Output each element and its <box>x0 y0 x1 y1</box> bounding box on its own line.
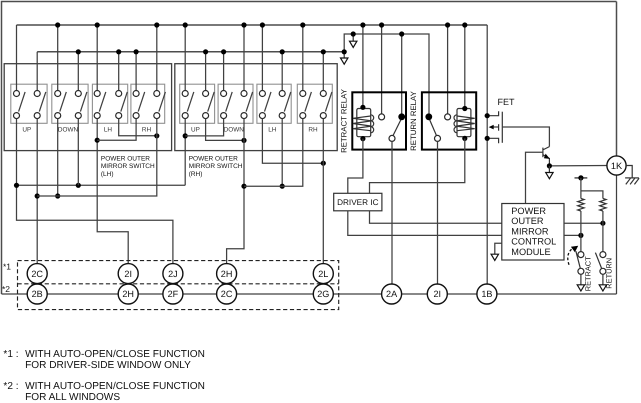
off-page arrow at module left <box>495 243 502 254</box>
junction on bus y25 <box>55 22 60 27</box>
wire: stem from bus y52 to switch <box>223 52 225 91</box>
svg-text:2A: 2A <box>386 289 398 299</box>
switch arm (UP LH-assy) <box>39 92 46 112</box>
return relay coil (inductor + resistor) <box>457 109 471 137</box>
wire: return relay coil feed from bus y25 <box>464 25 466 109</box>
junction on bus y52 <box>280 49 285 54</box>
wire: RH-assy LH-L down and right to RH-R line <box>262 119 323 164</box>
return relay box <box>422 92 476 149</box>
svg-text:*2 :: *2 : <box>3 381 18 392</box>
wire: retract relay coil to driver IC <box>348 139 363 194</box>
wire: RH-assy RH-R down to connector 2L <box>322 119 324 264</box>
wire: module top to transistor base <box>526 152 543 203</box>
resistor R (retract sense) <box>578 199 584 212</box>
off-page arrow on y34 line <box>352 34 354 41</box>
wire: stem from bus y25 to switch <box>184 25 186 91</box>
retract relay box <box>352 92 406 149</box>
svg-text:(RH): (RH) <box>189 171 203 178</box>
switch contact circles (LH RH-assy) <box>259 91 265 97</box>
junction on bus y52 <box>76 49 81 54</box>
svg-text:MIRROR: MIRROR <box>511 226 549 236</box>
svg-text:LH: LH <box>104 127 113 134</box>
wire: stem from bus y52 to switch <box>77 52 79 91</box>
wire: 1K to ground <box>626 166 632 178</box>
wire H1: common of UP-L/DOWN-R/RH-assy-UP-L <box>17 184 186 186</box>
switch arm (DOWN RH-assy) <box>246 92 253 112</box>
connector 1B (bottom row) <box>477 284 497 304</box>
power outer mirror switch (LH) box <box>4 64 171 151</box>
off-page arrow below emitter <box>548 166 550 172</box>
connector 2C (bottom row) <box>217 284 237 304</box>
off-page arrow below return switch <box>602 274 604 285</box>
ground (chassis) <box>625 177 639 179</box>
wire: driver IC output 2 to module <box>348 211 502 236</box>
wire: return relay open contact feed from bus y25 <box>447 25 449 114</box>
switch contact circles (RH RH-assy) <box>320 91 326 97</box>
retract relay open contact <box>379 114 385 120</box>
svg-text:POWER OUTER: POWER OUTER <box>189 156 238 163</box>
connector 2I (top row) <box>118 264 138 284</box>
svg-text:DOWN: DOWN <box>58 127 79 134</box>
wire: stem from bus y25 to switch <box>156 25 158 91</box>
svg-text:UP: UP <box>22 127 31 134</box>
power outer mirror control module box <box>502 204 564 261</box>
wire: 1K down to bottom wire <box>616 175 618 294</box>
resistor R (return sense) <box>600 199 606 212</box>
svg-text:2H: 2H <box>221 269 233 279</box>
switch arm (UP RH-assy) <box>187 92 194 112</box>
wire: driver IC output 1 to module <box>370 211 502 223</box>
svg-text:RH: RH <box>308 127 318 134</box>
wire: RH-assy DOWN-L down and left to UP-L <box>185 119 223 136</box>
wire: stem from bus y52 to switch <box>281 52 283 91</box>
off-page arrow at end of bus y52 <box>343 52 345 58</box>
svg-text:2B: 2B <box>32 289 43 299</box>
connector 2H (top row) <box>217 264 237 284</box>
svg-text:CONTROL: CONTROL <box>511 237 556 247</box>
switch contact circles (LH LH-assy) <box>94 91 100 97</box>
svg-text:WITH AUTO-OPEN/CLOSE FUNCTION: WITH AUTO-OPEN/CLOSE FUNCTION <box>25 381 205 392</box>
svg-text:2G: 2G <box>317 289 329 299</box>
connector 2I (bottom row) <box>427 284 447 304</box>
svg-text:*1 :: *1 : <box>3 349 18 360</box>
svg-text:*2: *2 <box>2 284 10 294</box>
wire: retract relay closed contact feed from y34 line <box>401 34 403 114</box>
return relay common contact <box>435 135 441 141</box>
wire: stem from bus y25 to switch <box>57 25 59 91</box>
return relay open contact <box>445 114 451 120</box>
wire: LH-L down, jog to connector 2I <box>97 119 128 264</box>
svg-text:2F: 2F <box>168 289 179 299</box>
switch contact circles (DOWN LH-assy) <box>55 91 61 97</box>
svg-text:FOR DRIVER-SIDE WINDOW ONLY: FOR DRIVER-SIDE WINDOW ONLY <box>25 360 191 371</box>
wire: transistor emitter to 1K <box>549 165 607 167</box>
connector 2G (bottom row) <box>313 284 333 304</box>
svg-text:OUTER: OUTER <box>511 216 544 226</box>
FET (MOSFET) symbol <box>487 111 498 116</box>
svg-text:1K: 1K <box>611 161 623 171</box>
svg-text:WITH AUTO-OPEN/CLOSE FUNCTION: WITH AUTO-OPEN/CLOSE FUNCTION <box>25 349 205 360</box>
wire: RH-assy UP-R down and right to DOWN-R <box>206 119 244 141</box>
switch arm (LH RH-assy) <box>265 92 272 112</box>
svg-text:MODULE: MODULE <box>511 247 550 257</box>
dashed connector block outline <box>18 261 339 310</box>
svg-text:RETURN: RETURN <box>605 258 614 289</box>
wire: second bus (y=25) <box>17 24 488 26</box>
switch contact circles (RH RH-assy) <box>300 91 306 97</box>
wire: return relay common down to connector 2I <box>437 141 439 284</box>
svg-text:2J: 2J <box>168 269 178 279</box>
wire: DOWN-R down to H1 <box>77 119 79 186</box>
connector 2H (bottom row) <box>118 284 138 304</box>
wire: resistor to return switch <box>602 211 604 252</box>
driver IC box <box>334 193 382 211</box>
junction on bus y52 <box>203 49 208 54</box>
return position switch <box>600 252 606 258</box>
switch contact circles (DOWN RH-assy) <box>221 91 227 97</box>
junction on bus y52 <box>321 49 326 54</box>
switch sub-box RH (LH assembly) <box>131 84 165 123</box>
wire H3: RH-assy RH-L down, left to DOWN-R line <box>244 119 303 187</box>
switch arm (RH RH-assy) <box>325 92 332 112</box>
svg-text:RH: RH <box>142 127 152 134</box>
junction on bus y25 <box>241 22 246 27</box>
switch contact circles (DOWN RH-assy) <box>241 91 247 97</box>
junction on bus y52 <box>134 49 139 54</box>
switch sub-box DOWN (LH assembly) <box>52 84 88 123</box>
svg-text:2C: 2C <box>31 269 43 279</box>
svg-text:2I: 2I <box>124 269 132 279</box>
wire: top bus down to 1K <box>616 2 618 156</box>
wire: retract relay coil feed from bus y25 <box>362 25 364 107</box>
svg-text:*1: *1 <box>3 261 11 271</box>
wire: retract relay common down to connector 2A <box>391 141 393 284</box>
wire: stem from bus y25 to switch <box>16 25 18 91</box>
svg-text:2H: 2H <box>122 289 134 299</box>
wire: bottom ground bus through connectors <box>2 293 617 295</box>
wire: retract relay open contact feed from bus y25 <box>381 25 383 114</box>
switch contact circles (UP RH-assy) <box>182 91 188 97</box>
retract relay coil (resistor + inductor) <box>357 109 371 137</box>
svg-text:RETRACT: RETRACT <box>583 256 592 291</box>
retract relay switch arm <box>393 120 401 136</box>
svg-text:RETRACT RELAY: RETRACT RELAY <box>339 88 348 153</box>
junction on bus y25 <box>95 22 100 27</box>
connector 1K <box>607 156 626 175</box>
svg-text:2L: 2L <box>318 269 328 279</box>
wire: stem from bus y52 to switch <box>205 52 207 91</box>
wire: module to sense resistor left <box>564 234 581 236</box>
wire: stem from bus y52 to switch <box>36 52 38 91</box>
svg-text:LH: LH <box>268 127 277 134</box>
junction on bus y25 <box>300 22 305 27</box>
wire: FET gate to transistor collector <box>502 127 549 147</box>
wire: stem from bus y25 to switch <box>96 25 98 91</box>
wire: RH-assy UP-L down to H1 <box>184 119 186 186</box>
svg-text:MIRROR SWITCH: MIRROR SWITCH <box>101 163 155 170</box>
switch contact circles (RH LH-assy) <box>133 91 139 97</box>
svg-text:RETURN RELAY: RETURN RELAY <box>409 90 418 150</box>
svg-text:UP: UP <box>191 127 200 134</box>
switch sub-box LH (LH assembly) <box>92 84 127 123</box>
junction on bus y52 <box>116 49 121 54</box>
wire: bus y25 end down to FET and connector 1B <box>486 25 488 284</box>
connector 2C (top row) <box>27 264 47 284</box>
switch arm (UP RH-assy) <box>208 92 215 112</box>
svg-text:2I: 2I <box>434 289 442 299</box>
wire: RH-L down and left to LH-L line <box>97 119 136 141</box>
switch contact circles (UP RH-assy) <box>203 91 209 97</box>
connector 2F (bottom row) <box>163 284 183 304</box>
junction on bus y25 <box>260 22 265 27</box>
wire: LH-R down and right to RH-R line <box>119 119 157 136</box>
switch arm (DOWN RH-assy) <box>226 92 233 112</box>
wire: stem from bus y25 to switch <box>243 25 245 91</box>
return relay switch arm <box>430 120 437 136</box>
switch contact circles (RH LH-assy) <box>154 91 160 97</box>
switch contact circles (LH LH-assy) <box>116 91 122 97</box>
svg-text:DRIVER IC: DRIVER IC <box>337 198 378 207</box>
wire: stem from bus y25 to switch <box>261 25 263 91</box>
switch arm (RH LH-assy) <box>138 92 145 112</box>
wire: RH-assy DOWN-R down, jog to connector 2H <box>227 119 244 264</box>
wire: module to sense resistor right <box>564 222 603 224</box>
wire: DOWN-L down to H2 <box>57 119 59 196</box>
switch arm (UP LH-assy) <box>19 92 26 112</box>
wire: RH-assy LH-R down to H3 <box>281 119 283 187</box>
wire: stem from bus y52 to switch <box>135 52 137 91</box>
switch sub-box RH (RH assembly) <box>297 84 332 123</box>
svg-text:1B: 1B <box>481 289 492 299</box>
connector 2B (bottom row) <box>27 284 47 304</box>
connector 2L (top row) <box>313 264 333 284</box>
connector 2A (bottom row) <box>382 284 402 304</box>
switch arm (LH RH-assy) <box>284 92 291 112</box>
wire: stem from bus y52 to switch <box>118 52 120 91</box>
switch contact circles (LH RH-assy) <box>279 91 285 97</box>
svg-text:POWER OUTER: POWER OUTER <box>101 156 150 163</box>
switch contact circles (UP LH-assy) <box>34 91 40 97</box>
switch arm (DOWN LH-assy) <box>80 92 87 112</box>
svg-text:MIRROR SWITCH: MIRROR SWITCH <box>189 163 243 170</box>
svg-text:FET: FET <box>498 97 516 107</box>
junction on bus y52 <box>221 49 226 54</box>
wire: return relay coil to driver IC <box>370 138 465 193</box>
switch arm (DOWN LH-assy) <box>60 92 67 112</box>
dashed divider between connector rows *1/*2 <box>18 283 339 285</box>
wire: third bus (y=52) <box>37 51 344 53</box>
wire: UP-L down, tee at H1, jog to connector 2J <box>17 119 173 264</box>
switch contact circles (DOWN LH-assy) <box>75 91 81 97</box>
switch sub-box UP (RH assembly) <box>180 84 215 123</box>
wire: stem from bus y52 to switch <box>322 52 324 91</box>
power tap crossbar <box>575 177 588 179</box>
connector 2J (top row) <box>163 264 183 284</box>
svg-text:DOWN: DOWN <box>224 127 245 134</box>
retract relay common contact <box>389 135 395 141</box>
switch arm (RH RH-assy) <box>305 92 312 112</box>
switch arm (LH LH-assy) <box>121 92 128 112</box>
wire: crossbar down with branch to both pull-up resistors <box>580 178 582 199</box>
svg-text:(LH): (LH) <box>101 171 114 178</box>
junction on bus y25 <box>154 22 159 27</box>
retract position switch <box>578 252 584 258</box>
transistor Q (driver) <box>542 148 544 158</box>
off-page arrow below retract switch <box>580 274 582 285</box>
switch sub-box UP (LH assembly) <box>11 84 47 123</box>
switch sub-box DOWN (RH assembly) <box>218 84 253 123</box>
switch arm (RH LH-assy) <box>159 92 166 112</box>
switch arm (LH LH-assy) <box>99 92 106 112</box>
svg-text:FOR ALL WINDOWS: FOR ALL WINDOWS <box>25 392 120 403</box>
wire: UP-R down to connector 2C <box>36 119 38 264</box>
wire: resistor to retract switch <box>580 211 582 252</box>
wire H2: RH-R down, left to UP-R line <box>37 119 157 196</box>
svg-text:2C: 2C <box>221 289 233 299</box>
retract relay closed contact (filled) <box>398 113 405 120</box>
junction on bus y25 <box>183 22 188 27</box>
return relay closed contact (filled) <box>425 113 432 120</box>
svg-text:POWER: POWER <box>511 206 546 216</box>
switch contact circles (UP LH-assy) <box>14 91 20 97</box>
wire: jog from third bus up to y=34 feeding relay fixed contacts <box>344 34 429 114</box>
wire: stem from bus y25 to switch <box>302 25 304 91</box>
actuation dashed arrow (retract switch) <box>568 249 572 265</box>
wire: top power bus and left bus <box>2 2 617 295</box>
switch sub-box LH (RH assembly) <box>257 84 291 123</box>
power outer mirror switch (RH) box <box>175 64 337 151</box>
